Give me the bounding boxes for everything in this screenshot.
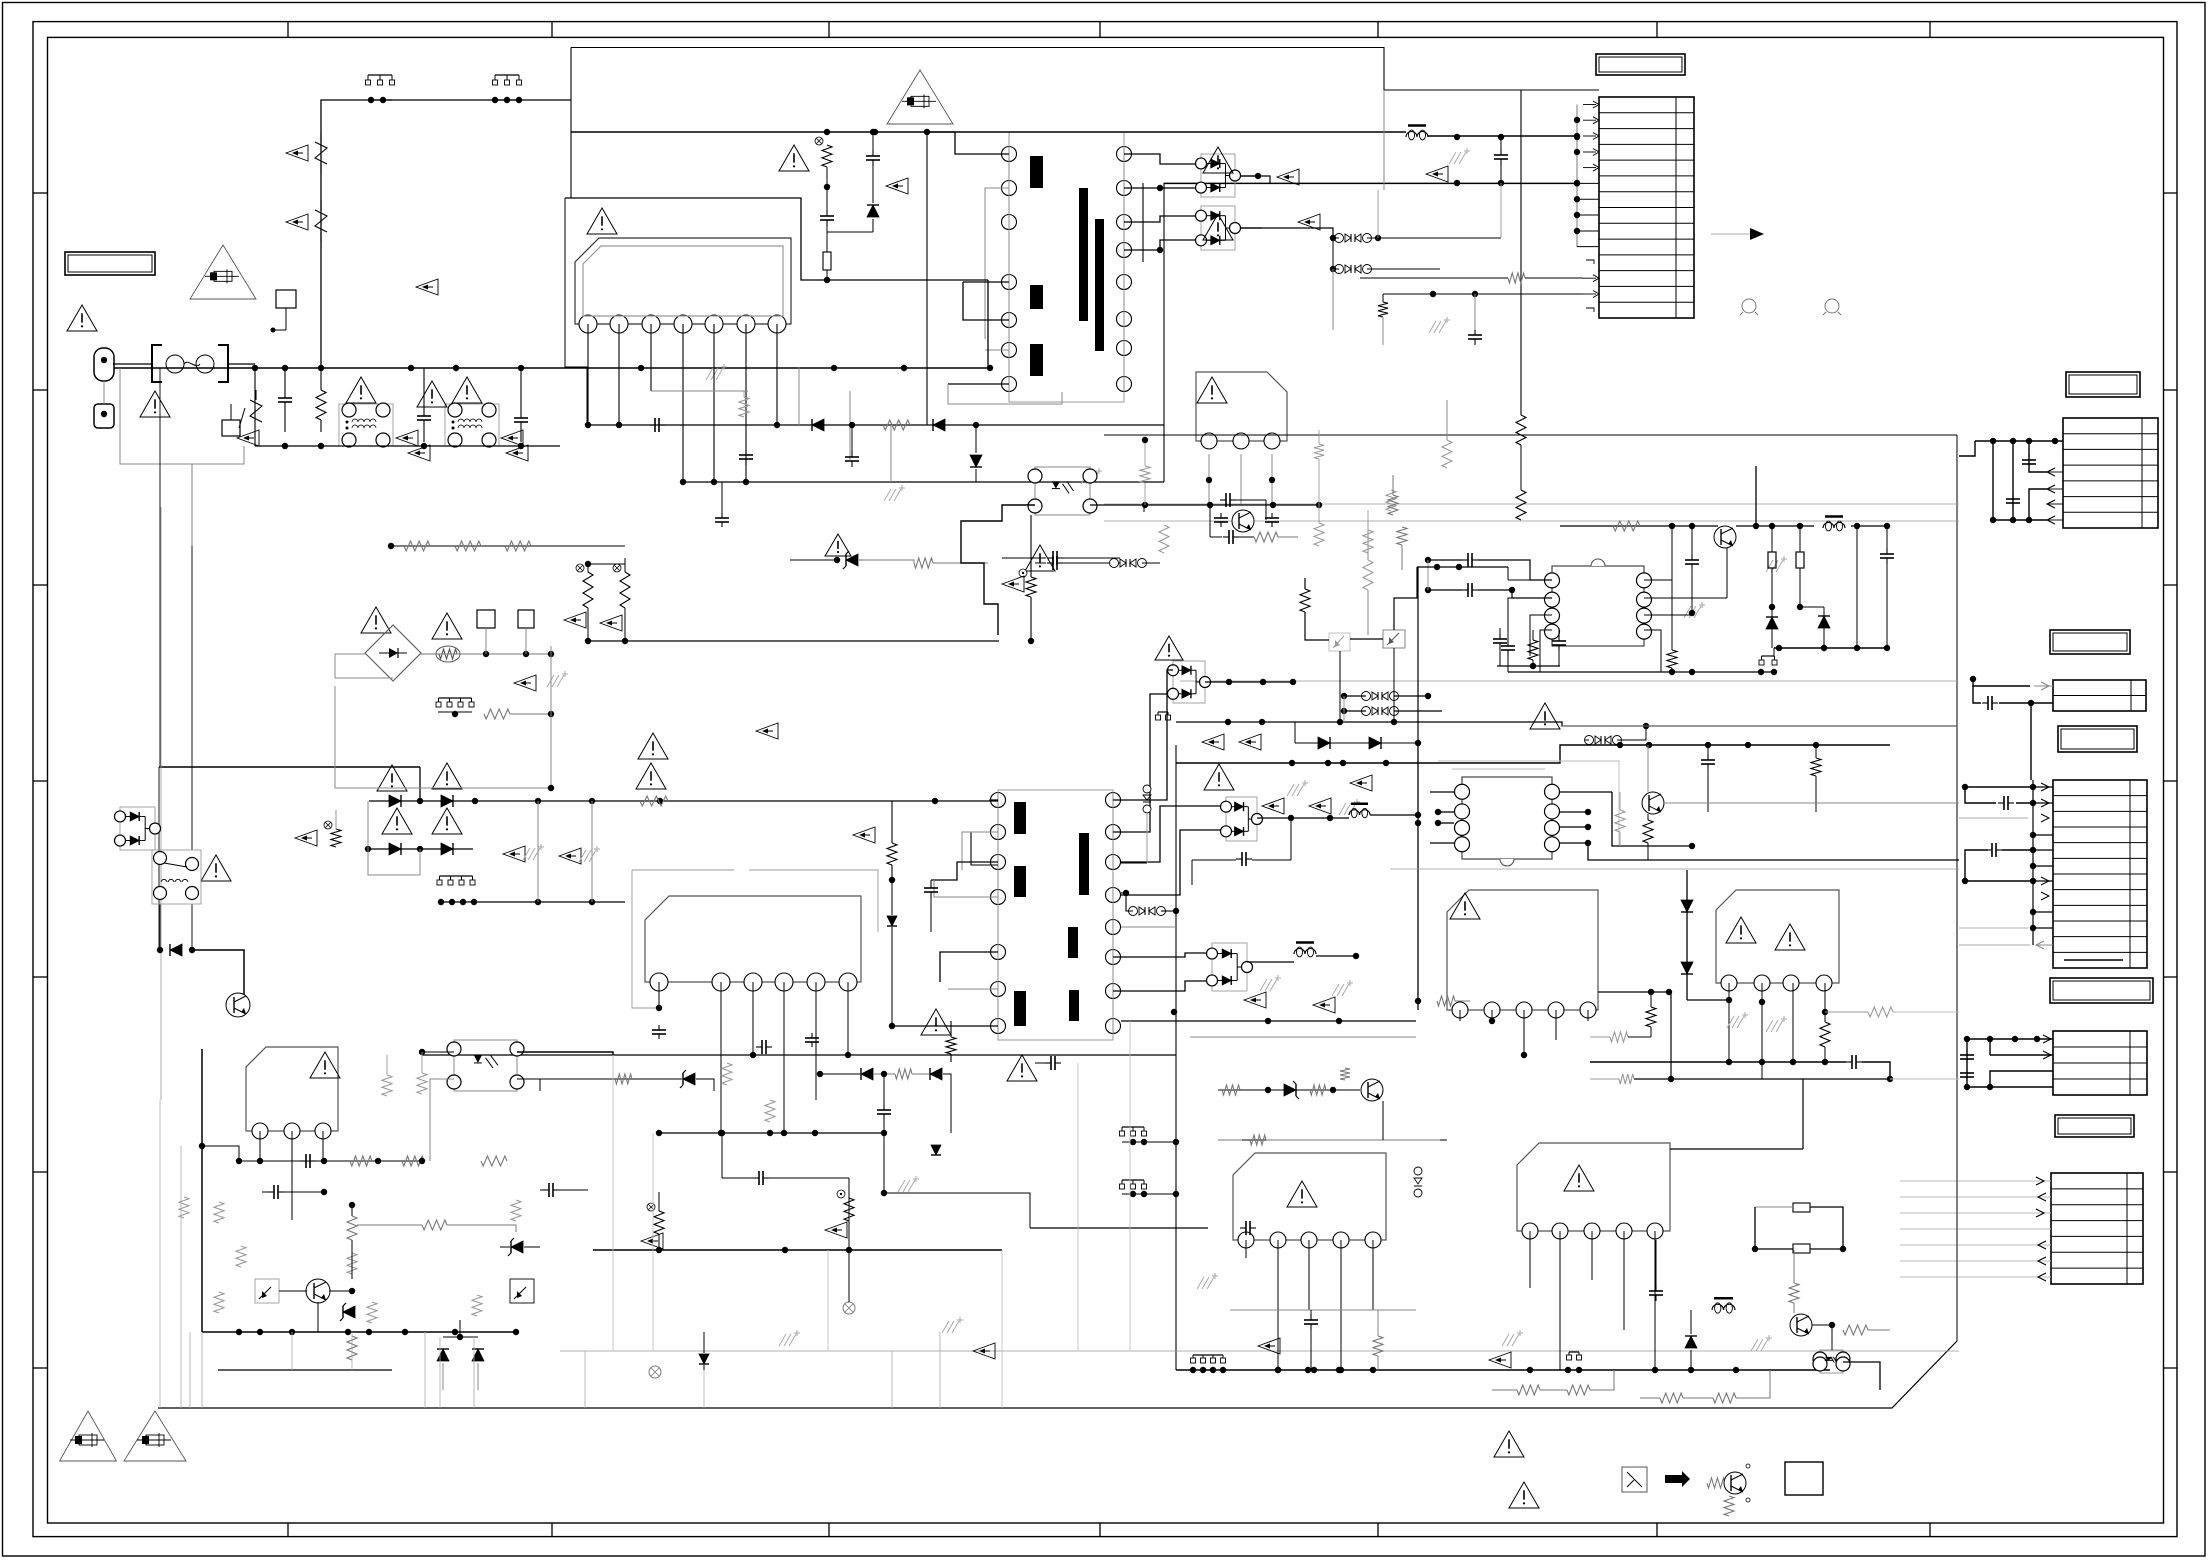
jumper J1 xyxy=(1742,299,1756,313)
connector CN4 tall xyxy=(2053,780,2147,968)
res R71 xyxy=(1789,1283,1799,1303)
warning triangle W11 xyxy=(1025,545,1055,571)
res R43 xyxy=(1516,415,1526,445)
fusible res FR3 xyxy=(620,572,630,608)
res R45 xyxy=(1508,273,1525,283)
connpair CP3 xyxy=(1335,265,1344,274)
label box sheet-ref L3 xyxy=(2066,372,2140,397)
bus 1062 xyxy=(1590,1061,1846,1063)
diode D40 xyxy=(1766,617,1778,629)
ground G8 xyxy=(1339,803,1346,815)
wire row 1228 xyxy=(1030,1227,1208,1229)
connector CN1 main output xyxy=(1599,97,1694,318)
wire bridge out xyxy=(420,653,551,655)
wire T1 pkg out links xyxy=(1240,176,1270,183)
ground G5 xyxy=(1429,321,1436,333)
res R92 xyxy=(347,1253,357,1274)
dual diode D3/D4 xyxy=(1201,206,1235,250)
conn3 b1 xyxy=(1122,1126,1144,1128)
transistor Q3 xyxy=(1790,1314,1812,1336)
opto PC2 wires xyxy=(422,1051,454,1053)
cap C-U1b xyxy=(826,210,828,216)
wire 892-1026 xyxy=(891,960,893,1026)
wire vertical 927 xyxy=(926,132,928,425)
cap C50 xyxy=(1691,554,1693,560)
thermistor RT1 xyxy=(315,142,327,164)
res R64 xyxy=(1868,1007,1893,1017)
res R73 xyxy=(1373,1336,1383,1356)
arrow triangle A10 xyxy=(1426,166,1448,182)
cap C41 xyxy=(1474,329,1476,335)
thermistor RT2 xyxy=(315,210,327,232)
border zone tick marks xyxy=(287,22,289,38)
wire y391 xyxy=(651,390,748,392)
wire vertical 202 xyxy=(201,1049,203,1332)
ground G1 xyxy=(706,368,713,380)
wire res row 1161 xyxy=(239,1160,422,1162)
connpair CP7 xyxy=(1129,907,1138,916)
pad box 2 xyxy=(518,610,534,628)
wire opto row 1055 xyxy=(422,1054,1176,1056)
arrow triangle A11 xyxy=(1277,169,1299,185)
vert 1857 xyxy=(1856,526,1858,648)
bus 1370 left xyxy=(218,1369,392,1371)
res R96 xyxy=(615,1074,632,1084)
diode D51 xyxy=(1369,737,1381,749)
fusible res FR4 xyxy=(822,145,832,167)
U6 pin4 xyxy=(1824,983,1826,1012)
conn3 mid xyxy=(1158,711,1168,713)
connector CN6 pin wires xyxy=(1900,1180,2051,1182)
wire relay vertical b xyxy=(191,464,193,850)
arrow triangle A32 xyxy=(756,723,778,739)
cap C58 xyxy=(1499,633,1501,639)
main AC bus xyxy=(114,367,990,369)
arrow triangle A30 xyxy=(1489,1352,1511,1368)
conn3 b2 xyxy=(1122,1179,1144,1181)
IC U1 power control xyxy=(575,238,791,324)
T1 secondary wires xyxy=(1124,154,1196,164)
wire outline top 435 xyxy=(1104,434,1957,436)
wire relay diode wire xyxy=(191,904,193,950)
U4 pin drops xyxy=(259,1131,261,1161)
outline gray loop U3 top2 xyxy=(749,870,878,932)
wire row 1133 xyxy=(659,1132,884,1134)
wire IC U1 top rail xyxy=(565,198,988,280)
spark gap xyxy=(250,400,262,422)
fusible res FR2 xyxy=(583,572,593,608)
zener ZD2 xyxy=(343,1306,355,1318)
cap C73 xyxy=(930,882,932,888)
4pin conn bottom xyxy=(1193,1354,1223,1356)
res R107 xyxy=(1528,640,1538,660)
bridge enclosure xyxy=(335,646,551,788)
wire resistor row 546 xyxy=(391,545,625,547)
junction xyxy=(453,365,459,371)
IC U10 8-pin DIP xyxy=(1462,777,1552,859)
res R93 xyxy=(422,1220,447,1230)
outline gray horizontal 1351 xyxy=(560,1350,1959,1352)
cap C56 xyxy=(1462,559,1468,561)
cap C84 xyxy=(883,1104,885,1110)
warning triangle W10 xyxy=(1197,377,1227,403)
optotriac OC1 xyxy=(255,1279,279,1303)
arrow triangle A27 xyxy=(853,827,875,843)
warning triangle W30 xyxy=(1509,1482,1539,1508)
fuse warning triangle FT4 xyxy=(124,1411,186,1461)
connector CN1 feed bus xyxy=(1576,105,1578,248)
res R42 xyxy=(1363,560,1373,590)
arrow triangle A18 xyxy=(1244,992,1266,1008)
wire y294 xyxy=(1383,293,1583,295)
ground G11 xyxy=(1751,1339,1758,1351)
IC U9 8-pin DIP xyxy=(1552,566,1644,646)
wire bus 482 xyxy=(681,481,1164,483)
optotriac OC3 xyxy=(1329,633,1350,651)
ground G3 xyxy=(1081,472,1088,484)
wire bus under U1 xyxy=(587,424,1164,426)
arrow triangle A12 xyxy=(1298,214,1320,230)
fuse warning triangle FT1 xyxy=(190,245,256,299)
cap C-U1a xyxy=(872,150,874,156)
label box sheet-ref L1 xyxy=(65,252,155,275)
ground G6 xyxy=(547,675,554,687)
bus 1332 junctions xyxy=(236,1329,242,1335)
wire bus down from relay xyxy=(159,904,161,950)
ground G19 xyxy=(1684,606,1691,618)
wire relay feed bus xyxy=(159,766,420,768)
cap C80 xyxy=(268,1191,274,1193)
wire diode row 849 xyxy=(368,848,473,850)
label box sheet-ref L5 xyxy=(2058,726,2137,752)
outline gray horizontal 869 xyxy=(1390,868,1959,870)
ground G14 xyxy=(1332,984,1339,996)
transistor Q2 xyxy=(1642,792,1664,814)
res R72 xyxy=(1843,1325,1868,1335)
cap C32 xyxy=(851,451,853,457)
warning triangle W5 xyxy=(452,377,482,403)
U7 pin drops xyxy=(1245,1240,1247,1258)
res R66 xyxy=(1619,1074,1634,1084)
connector CN1 pin arrows xyxy=(1583,104,1596,106)
opto PC3 xyxy=(1820,1350,1843,1373)
wire outline bottom 1408 xyxy=(158,1341,1957,1408)
wire row 1079 xyxy=(520,1078,660,1080)
res R50 xyxy=(347,1336,357,1360)
outline gray horizontal 681 xyxy=(1180,680,1957,682)
junction u1 xyxy=(824,184,830,190)
IC U4 vertical block xyxy=(246,1047,338,1131)
connector CN2 feed network xyxy=(1975,440,2063,442)
cap C61 xyxy=(1310,1314,1312,1320)
transformer T2 xyxy=(998,790,1113,1040)
wire pc1 right xyxy=(1090,504,1319,506)
gray drops mid xyxy=(612,1055,614,1351)
cap C82 xyxy=(1045,1062,1051,1064)
cap C33 xyxy=(721,513,723,518)
bus u9 bottom xyxy=(1176,745,1890,763)
cap C59 xyxy=(1558,635,1560,641)
relay RL1 xyxy=(152,850,201,904)
wire xyxy=(120,368,244,464)
transformer T1 xyxy=(1009,132,1124,402)
junction xyxy=(318,365,324,371)
cap C30 xyxy=(649,424,655,426)
inductor L3 xyxy=(1406,132,1417,138)
wire pc1 left xyxy=(961,505,1035,635)
warning triangle W14 xyxy=(377,765,407,791)
junction row1161 xyxy=(236,1158,242,1164)
wire oc3 xyxy=(1831,1325,1833,1350)
vert 1672 xyxy=(1671,526,1673,650)
warning triangle W23 xyxy=(1564,1165,1594,1191)
warning triangle W1 xyxy=(67,305,97,331)
gnd marks u6 xyxy=(1727,1016,1734,1028)
U1 pin drops xyxy=(587,324,589,425)
res chain y546 xyxy=(404,541,430,551)
warning triangle W13 xyxy=(432,613,462,639)
cap C71 xyxy=(1223,536,1229,538)
warning near ZD1 xyxy=(825,534,851,556)
warning triangle W2 xyxy=(140,391,170,417)
cap C85 xyxy=(1240,1227,1246,1229)
label box sheet-ref L6 xyxy=(2050,978,2153,1003)
wire vertical 1164 xyxy=(1163,183,1165,482)
res R106 xyxy=(946,1037,956,1054)
cap C34 xyxy=(1047,562,1053,564)
warning triangle W29 xyxy=(1494,1431,1524,1457)
wire 1428 drop xyxy=(1427,560,1429,590)
connector CN3 2-pin xyxy=(2053,680,2146,711)
ground G18 xyxy=(1197,1277,1204,1289)
wire row 1140 xyxy=(1218,1139,1447,1141)
diode D-U1 xyxy=(867,205,879,217)
warning triangle W20 xyxy=(1450,893,1480,919)
res R30 xyxy=(883,420,910,430)
pad box 1 xyxy=(477,610,495,628)
line filter L1 xyxy=(339,404,393,446)
degauss connector CN-D2 xyxy=(495,74,519,76)
cap C31 xyxy=(745,449,747,455)
res R40 xyxy=(1159,525,1169,553)
diode D43 xyxy=(1681,962,1693,974)
relay diode D-R1 xyxy=(170,944,182,956)
arrow triangle A16 xyxy=(1309,798,1331,814)
U5 pin wires xyxy=(1459,1010,1461,1021)
warning triangle W24 xyxy=(310,1052,340,1078)
diode D41 xyxy=(1818,616,1830,628)
ground G7 xyxy=(1287,784,1294,796)
wire relay out xyxy=(192,950,244,1005)
arrow triangle A20 xyxy=(1258,1338,1280,1354)
wire HV bus top xyxy=(571,131,1406,133)
wire xyxy=(254,368,256,446)
diode D20 xyxy=(389,795,401,807)
bridge left wire xyxy=(335,654,393,678)
res R31 xyxy=(739,397,749,417)
wire vertical 1143 xyxy=(1142,183,1144,262)
wire conn row 902 xyxy=(441,901,625,903)
connpair CPv2 xyxy=(1143,785,1151,793)
arrow triangle A22 xyxy=(564,612,586,628)
connector CN2 pin arrows xyxy=(2047,471,2063,473)
wire vertical 1418 xyxy=(1417,743,1419,1010)
T2 sec wires xyxy=(1113,670,1173,800)
connector CN5 xyxy=(2053,1031,2147,1095)
U2 pin drops xyxy=(1208,454,1210,504)
arrow triangle A29 xyxy=(641,1233,663,1249)
wire oc1 xyxy=(279,1290,307,1292)
res R95 xyxy=(382,1075,392,1096)
cap C81 xyxy=(543,1189,549,1191)
res R-802 xyxy=(331,829,341,847)
zener ZD3 xyxy=(511,1241,523,1253)
bottom filter bus xyxy=(255,445,560,447)
res chain 1250 xyxy=(656,1247,662,1253)
conn3 bottom1 xyxy=(1569,1351,1579,1353)
zener ZD6 xyxy=(1284,1084,1296,1096)
transformer T2 winding rails xyxy=(997,792,999,1034)
junction xyxy=(831,365,837,371)
degauss connector CN-D1 xyxy=(368,74,392,76)
wire left col gray xyxy=(158,767,160,950)
line filter L2 xyxy=(445,404,499,446)
optotriac OC4 xyxy=(1383,630,1405,648)
fuse warning triangle FT2 top xyxy=(887,70,953,124)
U10 pin stubs xyxy=(1430,791,1454,793)
warning cap wire xyxy=(1002,557,1046,559)
res R103 xyxy=(1300,589,1310,612)
junction xyxy=(421,443,427,449)
conn2 u9 xyxy=(1773,648,1775,656)
zener ZD4 xyxy=(699,1354,709,1364)
connector CN6 xyxy=(2051,1173,2143,1284)
res R-B1 xyxy=(484,709,510,719)
junction xyxy=(987,365,993,371)
inductor L5 xyxy=(1294,949,1305,955)
wire 1310 xyxy=(1230,1309,1416,1311)
wire u7 top xyxy=(1218,1139,1242,1141)
connector CN4 feed bus xyxy=(2032,780,2034,945)
opto legend box xyxy=(1622,1467,1647,1492)
IC U5 xyxy=(1447,890,1598,1010)
fuse F1 with holder xyxy=(152,345,162,382)
legend transistor xyxy=(1707,1478,1725,1488)
U2 area caps xyxy=(1220,513,1222,518)
wire q3 xyxy=(1812,1324,1832,1326)
res R102 xyxy=(1314,444,1324,459)
junction hv xyxy=(1454,134,1460,140)
connpair CP6 xyxy=(1362,707,1371,716)
label box sheet-ref L2 xyxy=(1596,54,1685,75)
inductor L6 xyxy=(1712,1304,1724,1310)
warning triangle W21 xyxy=(1726,917,1756,943)
arrow triangle A40 xyxy=(1002,576,1024,592)
ground G10 xyxy=(779,1334,786,1346)
wire row849 loop xyxy=(368,801,420,875)
bridge rectifier BD1 xyxy=(365,625,421,681)
junctions row801 xyxy=(417,798,423,804)
diode D42 xyxy=(1681,900,1693,912)
cap C70 xyxy=(1220,499,1226,501)
wire HV bus to CN1 after choke xyxy=(1428,135,1577,137)
vert 1803 xyxy=(1802,1079,1804,1149)
mosfet Q5 xyxy=(1232,510,1254,532)
ground G16 xyxy=(579,850,586,862)
warning triangle W3 xyxy=(417,381,447,407)
warning triangle W17 xyxy=(432,808,462,834)
connector CN3 feed xyxy=(2034,685,2053,687)
cap C83 xyxy=(753,1177,759,1179)
signal arrow xyxy=(1711,233,1750,235)
U8 pin drops xyxy=(1529,1231,1531,1288)
res R90 xyxy=(481,1156,507,1166)
outline gray horizontal 726 xyxy=(1560,725,1957,727)
junction xyxy=(518,365,524,371)
warning triangle W6 xyxy=(779,145,809,171)
outline gray box around U3 xyxy=(632,870,659,1008)
opto PC1 xyxy=(1035,467,1090,515)
outline enclosure primary xyxy=(160,507,162,1100)
diode D52 xyxy=(887,916,897,926)
wire boundary primary top xyxy=(571,48,1599,91)
warning triangle W22 xyxy=(1287,1181,1317,1207)
arrow triangle A31 xyxy=(973,1343,995,1359)
wire 1378-238 xyxy=(1377,190,1379,238)
opto PC2 xyxy=(454,1040,517,1091)
res R-row801 xyxy=(640,796,668,806)
zener ZD5 xyxy=(683,1073,695,1085)
T2 out wires xyxy=(1205,681,1293,683)
res R59 xyxy=(1613,521,1640,531)
dual diode D9/D10 xyxy=(1212,943,1247,991)
ground G2 xyxy=(884,489,891,501)
gray drops bl xyxy=(159,1100,161,1408)
wire 902 to 801 links xyxy=(537,801,539,902)
U10 gray frame xyxy=(1438,761,1619,846)
outline gray loop U3 top xyxy=(632,869,734,871)
label box sheet-ref L7 xyxy=(2055,1115,2134,1137)
arrow triangle A25 xyxy=(559,848,581,864)
warning triangle W9 xyxy=(1203,214,1233,240)
wire hv sec xyxy=(1383,90,1385,190)
wire hv drop 1521 xyxy=(1520,90,1522,415)
junction xyxy=(901,365,907,371)
wire vertical 1176 xyxy=(1175,745,1177,1370)
optotriac OC2 xyxy=(510,1279,534,1303)
U5 right bus xyxy=(1598,991,1671,993)
cap C40 xyxy=(1500,149,1502,155)
wire q2 xyxy=(1664,802,1959,804)
junction xyxy=(318,443,324,449)
warning triangle W8 xyxy=(1203,147,1233,173)
res R76 xyxy=(1363,530,1373,553)
wire 1193 xyxy=(884,1193,1030,1228)
arrow triangle A21 xyxy=(514,675,536,691)
caps under U3 xyxy=(658,1025,660,1030)
warning triangle W4 xyxy=(346,377,376,403)
wire u10 right xyxy=(1612,792,1692,846)
cap C52 xyxy=(1507,640,1509,646)
connector CN4 row underline xyxy=(2064,959,2123,961)
cap C57 xyxy=(1462,589,1468,591)
arrow triangle A14 xyxy=(1239,734,1261,750)
inductor L4 xyxy=(1349,810,1360,815)
junction row722 xyxy=(1225,719,1231,725)
res R74 xyxy=(1254,532,1278,542)
diode D32 xyxy=(970,455,982,467)
cap C55 xyxy=(1707,754,1709,760)
